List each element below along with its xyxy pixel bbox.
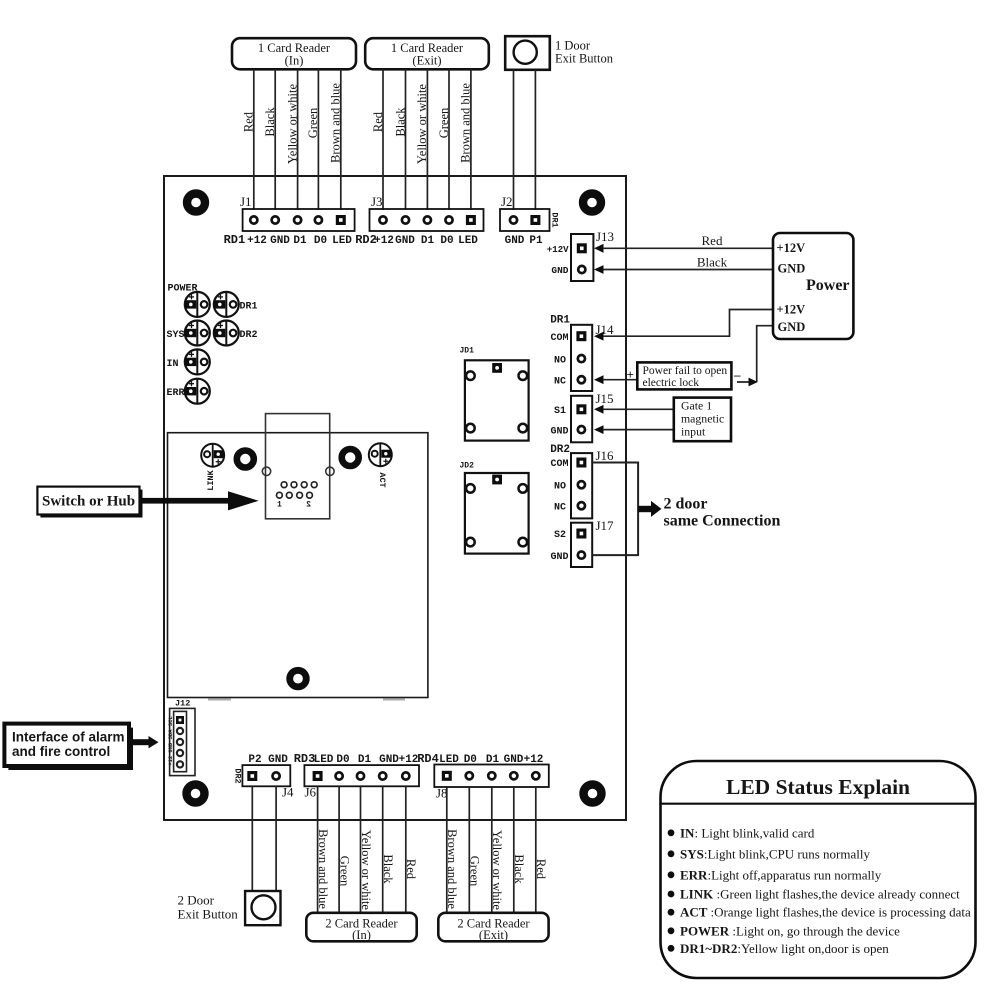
thick arrow 2 door bbox=[638, 501, 661, 517]
svg-text:J13: J13 bbox=[596, 229, 614, 244]
svg-text:D0: D0 bbox=[440, 235, 453, 247]
wire J6 Green bbox=[338, 786, 340, 913]
module edge tick bbox=[383, 699, 405, 701]
svg-text:LINK :Green light flashes,the: LINK :Green light flashes,the device alr… bbox=[680, 887, 960, 902]
svg-text:Green: Green bbox=[468, 856, 482, 887]
RJ45 jack bbox=[262, 414, 334, 519]
legend divider bbox=[661, 803, 976, 805]
svg-text:LED: LED bbox=[314, 754, 334, 766]
svg-text:GND: GND bbox=[778, 320, 806, 334]
lock box bbox=[637, 362, 731, 389]
svg-text:D1: D1 bbox=[358, 754, 372, 766]
svg-text:SYS: SYS bbox=[167, 330, 185, 341]
svg-text:GND: GND bbox=[379, 754, 399, 766]
svg-text:Black: Black bbox=[263, 107, 277, 137]
svg-text:+12: +12 bbox=[399, 754, 419, 766]
svg-text:COM: COM bbox=[550, 459, 568, 470]
svg-text:IN: Light blink,valid card: IN: Light blink,valid card bbox=[680, 825, 815, 840]
svg-text:(In): (In) bbox=[285, 54, 304, 68]
wire button P2 bbox=[251, 786, 253, 891]
svg-text:Power: Power bbox=[806, 277, 850, 294]
bullet SYS bbox=[668, 850, 675, 857]
svg-text:P2: P2 bbox=[248, 754, 261, 766]
wire J14 COM to power +12V bbox=[603, 310, 773, 337]
arrowhead J14 COM bbox=[594, 332, 604, 341]
svg-text:J2: J2 bbox=[501, 194, 513, 209]
svg-text:LED: LED bbox=[458, 235, 478, 247]
svg-text:Brown and blue: Brown and blue bbox=[459, 83, 473, 163]
connector J2 bbox=[500, 209, 550, 231]
box 2 Card Reader (In) bbox=[306, 913, 416, 942]
LED ERR bbox=[185, 379, 210, 404]
gate box bbox=[674, 398, 731, 442]
bullet ACT bbox=[668, 909, 675, 916]
connector J3 bbox=[370, 209, 484, 231]
svg-text:+12V: +12V bbox=[777, 241, 806, 255]
svg-text:NO: NO bbox=[554, 355, 566, 366]
svg-text:D0: D0 bbox=[314, 235, 327, 247]
relay JD1 bbox=[460, 347, 529, 441]
module edge tick bbox=[208, 699, 231, 701]
svg-text:same Connection: same Connection bbox=[664, 513, 781, 530]
mounting hole bottom-left bbox=[187, 785, 205, 803]
label Interface of alarm and fire control bbox=[12, 730, 125, 760]
svg-text:J17: J17 bbox=[596, 518, 615, 533]
svg-text:DR1: DR1 bbox=[550, 212, 560, 227]
svg-text:GND: GND bbox=[504, 754, 524, 766]
bullet DR1-DR2 bbox=[668, 945, 675, 952]
svg-text:DR2: DR2 bbox=[233, 768, 243, 783]
wire bracket J16 COM to J17 GND bbox=[592, 463, 638, 556]
wire J8 Brown and blue bbox=[446, 787, 448, 913]
LED IN bbox=[185, 349, 210, 374]
svg-text:D0: D0 bbox=[336, 754, 349, 766]
wire reader-in Green bbox=[317, 69, 319, 210]
svg-text:+: + bbox=[627, 367, 634, 382]
svg-text:D1: D1 bbox=[421, 235, 435, 247]
svg-text:(Exit): (Exit) bbox=[412, 54, 441, 68]
connector J15 bbox=[571, 396, 592, 443]
board outline bbox=[164, 176, 626, 820]
svg-text:J16: J16 bbox=[596, 448, 615, 463]
wire J8 Red bbox=[535, 787, 537, 913]
svg-text:Red: Red bbox=[702, 233, 723, 248]
wire reader-in Brown and blue bbox=[340, 69, 342, 210]
svg-text:+12V: +12V bbox=[777, 303, 806, 317]
svg-text:Black: Black bbox=[393, 107, 407, 137]
connector J14 bbox=[571, 325, 592, 391]
svg-text:J4: J4 bbox=[282, 785, 294, 800]
svg-text:–: – bbox=[733, 367, 741, 382]
svg-text:Switch or Hub: Switch or Hub bbox=[42, 494, 135, 510]
Interface of alarm box with shadow bbox=[8, 728, 133, 770]
arrowhead to power GND bbox=[749, 378, 758, 387]
wire reader-exit Black bbox=[405, 69, 407, 210]
wire reader-exit Red bbox=[382, 69, 384, 210]
arrowhead J15 GND bbox=[594, 425, 604, 434]
arrowhead J13 +12V bbox=[594, 244, 604, 253]
svg-text:+12 GND SDA SCL: +12 GND SDA SCL bbox=[167, 716, 174, 766]
svg-text:POWER :Light on, go through th: POWER :Light on, go through the device bbox=[680, 923, 900, 938]
wire J6 Red bbox=[405, 786, 407, 913]
svg-text:S2: S2 bbox=[554, 530, 566, 541]
bullet POWER bbox=[668, 927, 675, 934]
LED DR2 bbox=[214, 321, 239, 346]
svg-text:and fire control: and fire control bbox=[12, 744, 110, 759]
svg-text:LED Status Explain: LED Status Explain bbox=[726, 775, 910, 799]
svg-text:Black: Black bbox=[512, 854, 526, 884]
wire button GND bbox=[513, 70, 515, 210]
svg-text:+12: +12 bbox=[374, 235, 394, 247]
svg-text:NC: NC bbox=[554, 376, 566, 387]
box 2 Card Reader (Exit) bbox=[438, 913, 548, 942]
mounting hole left of RJ45 bbox=[237, 451, 254, 468]
wire J6 Yellow or white bbox=[360, 786, 362, 913]
svg-text:Brown and blue: Brown and blue bbox=[445, 829, 459, 909]
svg-text:Black: Black bbox=[697, 254, 728, 269]
connector J13 bbox=[571, 234, 593, 281]
svg-text:ERR:Light off,apparatus run no: ERR:Light off,apparatus run normally bbox=[680, 867, 882, 882]
svg-text:D0: D0 bbox=[464, 754, 477, 766]
wire lock - to power GND bbox=[737, 326, 773, 382]
svg-text:J8: J8 bbox=[436, 786, 448, 801]
svg-text:S1: S1 bbox=[554, 406, 566, 417]
wire reader-in Yellow or white bbox=[297, 69, 299, 210]
connector J17 bbox=[571, 523, 592, 567]
wire J6 Brown and blue bbox=[317, 786, 319, 913]
svg-text:JD1: JD1 bbox=[460, 347, 475, 356]
svg-text:DR1: DR1 bbox=[240, 301, 258, 312]
svg-text:Yellow or white: Yellow or white bbox=[359, 830, 373, 910]
svg-text:DR1~DR2:Yellow light on,door i: DR1~DR2:Yellow light on,door is open bbox=[680, 941, 889, 956]
mounting hole top-left bbox=[187, 194, 205, 212]
label 1 Door Exit Button bbox=[555, 39, 614, 66]
svg-text:COM: COM bbox=[550, 333, 568, 344]
RJ45 pins bbox=[277, 482, 318, 498]
svg-text:2: 2 bbox=[306, 501, 311, 510]
svg-text:GND: GND bbox=[505, 235, 525, 247]
svg-text:J15: J15 bbox=[596, 391, 614, 406]
label 2 Door Exit Button bbox=[178, 893, 239, 922]
svg-text:ERR: ERR bbox=[167, 388, 185, 399]
svg-text:+12: +12 bbox=[247, 235, 267, 247]
svg-text:J12: J12 bbox=[175, 699, 190, 709]
svg-text:ACT :Orange light flashes,the: ACT :Orange light flashes,the device is … bbox=[680, 905, 971, 920]
mounting hole bottom-middle bbox=[290, 670, 307, 687]
wire J8 Green bbox=[468, 787, 470, 913]
2 Door Exit Button bbox=[245, 891, 280, 925]
svg-text:+12: +12 bbox=[524, 754, 544, 766]
svg-text:Exit Button: Exit Button bbox=[555, 52, 614, 66]
svg-text:Yellow or white: Yellow or white bbox=[415, 84, 429, 164]
wire J8 Yellow or white bbox=[491, 787, 493, 913]
svg-text:Yellow or white: Yellow or white bbox=[285, 84, 299, 164]
svg-text:J6: J6 bbox=[305, 785, 317, 800]
arrowhead J13 GND bbox=[594, 265, 604, 274]
svg-text:SYS:Light blink,CPU runs norma: SYS:Light blink,CPU runs normally bbox=[680, 846, 870, 861]
svg-text:Exit Button: Exit Button bbox=[178, 907, 239, 922]
svg-text:(Exit): (Exit) bbox=[479, 928, 508, 942]
mounting hole right of RJ45 bbox=[342, 449, 359, 466]
svg-text:JD2: JD2 bbox=[460, 462, 475, 471]
wire J6 Black bbox=[382, 786, 384, 913]
box 1 Card Reader (In) bbox=[232, 38, 356, 69]
svg-text:J1: J1 bbox=[240, 194, 252, 209]
svg-text:GND: GND bbox=[270, 235, 290, 247]
svg-text:RD3: RD3 bbox=[294, 752, 316, 766]
box 1 Card Reader (Exit) bbox=[365, 38, 489, 69]
svg-text:Power fail to open: Power fail to open bbox=[643, 365, 728, 377]
svg-text:Red: Red bbox=[242, 111, 256, 132]
LED ACT bbox=[369, 443, 392, 466]
arrowhead J14 NC bbox=[594, 375, 604, 384]
wire J15 GND to gate box bbox=[603, 429, 674, 431]
wire J14 NC to lock + bbox=[603, 379, 637, 381]
connector J12 bbox=[170, 699, 195, 776]
svg-text:D1: D1 bbox=[293, 235, 307, 247]
connector J16 bbox=[571, 453, 592, 518]
svg-text:Green: Green bbox=[338, 856, 352, 887]
label 2 door same Connection bbox=[664, 496, 781, 530]
bullet ERR bbox=[668, 871, 675, 878]
svg-text:DR1: DR1 bbox=[550, 315, 570, 327]
bullet IN bbox=[668, 829, 675, 836]
svg-text:2 door: 2 door bbox=[664, 496, 708, 513]
wire button GND bbox=[275, 786, 277, 891]
connector J4 bbox=[242, 765, 290, 786]
svg-text:LINK: LINK bbox=[206, 469, 216, 490]
svg-text:D1: D1 bbox=[486, 754, 500, 766]
ethernet module box bbox=[168, 433, 428, 698]
svg-text:Green: Green bbox=[306, 107, 320, 138]
svg-text:+12V: +12V bbox=[547, 245, 569, 255]
svg-text:DR2: DR2 bbox=[550, 444, 570, 456]
wire J8 Black bbox=[513, 787, 515, 913]
connector J1 bbox=[243, 209, 355, 231]
svg-text:Yellow or white: Yellow or white bbox=[490, 830, 504, 910]
Switch or Hub box with shadow bbox=[40, 490, 142, 518]
bullet LINK bbox=[668, 891, 675, 898]
svg-text:(In): (In) bbox=[352, 928, 371, 942]
svg-text:Green: Green bbox=[437, 107, 451, 138]
svg-text:Red: Red bbox=[371, 111, 385, 132]
power supply box bbox=[773, 233, 853, 339]
svg-text:IN: IN bbox=[167, 359, 179, 370]
svg-text:2 Door: 2 Door bbox=[178, 893, 215, 908]
svg-text:Interface of alarm: Interface of alarm bbox=[12, 730, 125, 745]
svg-text:POWER: POWER bbox=[168, 284, 198, 295]
wire reader-in Black bbox=[274, 69, 276, 210]
wire Black GND bbox=[603, 269, 773, 271]
wire reader-exit Brown and blue bbox=[470, 69, 472, 210]
svg-text:GND: GND bbox=[778, 262, 806, 276]
arrowhead J15 S1 bbox=[594, 405, 604, 414]
wire Red +12V bbox=[603, 247, 773, 249]
LED Status Explain box bbox=[661, 761, 976, 978]
svg-text:J3: J3 bbox=[371, 194, 383, 209]
svg-text:GND: GND bbox=[551, 265, 568, 276]
svg-text:Red: Red bbox=[534, 859, 548, 880]
svg-text:GND: GND bbox=[395, 235, 415, 247]
1 Door Exit Button bbox=[505, 36, 550, 70]
mounting hole top-right bbox=[583, 194, 601, 212]
connector J8 bbox=[434, 765, 549, 788]
svg-text:Red: Red bbox=[404, 859, 418, 880]
svg-text:LED: LED bbox=[439, 754, 459, 766]
relay JD2 bbox=[460, 462, 529, 554]
svg-text:magnetic: magnetic bbox=[681, 412, 724, 426]
LED SYS bbox=[185, 321, 210, 346]
wire reader-in Red bbox=[253, 69, 255, 210]
svg-text:input: input bbox=[681, 425, 706, 439]
connector J6 bbox=[304, 765, 419, 786]
svg-text:electric lock: electric lock bbox=[643, 377, 700, 389]
svg-text:Gate 1: Gate 1 bbox=[681, 399, 712, 413]
wire reader-exit Yellow or white bbox=[426, 69, 428, 210]
svg-text:RD1: RD1 bbox=[224, 233, 246, 247]
arrow to J12 bbox=[130, 736, 159, 748]
wire J15 S1 to gate box bbox=[603, 408, 674, 410]
svg-text:Brown and blue: Brown and blue bbox=[316, 829, 330, 909]
mounting hole bottom-right bbox=[584, 785, 602, 803]
svg-text:NC: NC bbox=[554, 502, 566, 513]
svg-text:Brown and blue: Brown and blue bbox=[329, 83, 343, 163]
svg-text:Black: Black bbox=[381, 854, 395, 884]
svg-text:1: 1 bbox=[277, 501, 282, 510]
svg-text:P1: P1 bbox=[529, 235, 543, 247]
wire reader-exit Green bbox=[448, 69, 450, 210]
svg-text:RD4: RD4 bbox=[417, 752, 439, 766]
wire button P1 bbox=[534, 70, 536, 210]
arrow to RJ45 bbox=[140, 491, 259, 510]
LED LINK bbox=[201, 444, 224, 467]
svg-text:GND: GND bbox=[550, 427, 568, 438]
svg-text:GND: GND bbox=[268, 754, 288, 766]
svg-text:GND: GND bbox=[550, 552, 568, 563]
svg-text:DR2: DR2 bbox=[240, 330, 258, 341]
LED DR1 bbox=[214, 292, 239, 317]
svg-text:LED: LED bbox=[332, 235, 352, 247]
LED POWER bbox=[185, 292, 210, 317]
svg-text:1 Door: 1 Door bbox=[555, 39, 591, 53]
svg-text:NO: NO bbox=[554, 481, 566, 492]
svg-text:ACT: ACT bbox=[377, 472, 387, 487]
